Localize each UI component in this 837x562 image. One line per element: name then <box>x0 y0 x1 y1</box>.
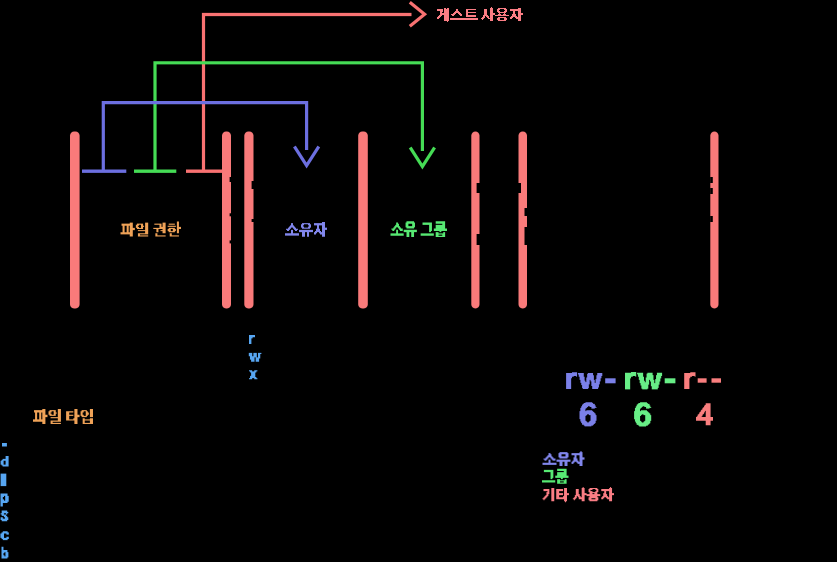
arrowhead red pointing right at guest user <box>410 2 425 26</box>
filetype char s <box>1 511 9 522</box>
wire green from group-permissions tick to owning group arrow <box>155 63 422 171</box>
tick blue under owner permissions rw- <box>82 169 126 172</box>
arrowhead blue pointing down at owner <box>294 147 318 166</box>
hyphen 1 after r others <box>698 378 707 382</box>
paren bar 1 left of permissions <box>70 132 80 309</box>
letter x execute <box>249 370 257 379</box>
label file type 파일 타입 <box>33 409 93 424</box>
black text notch on bar7 mid <box>710 188 713 194</box>
digit 6 group <box>634 402 651 426</box>
value r others <box>684 372 695 389</box>
filetype char d <box>1 456 9 466</box>
digit 4 others <box>696 403 713 425</box>
tick red under other permissions r-- <box>186 169 223 172</box>
paren bar 4 right of link count <box>358 132 368 309</box>
hyphen 2 after r others <box>712 378 722 382</box>
paren bar 5 left of owner name <box>471 132 479 309</box>
black text notch on bar6 mid right <box>525 208 528 216</box>
arrowhead green pointing down at owning group <box>410 148 434 167</box>
label guest user 게스트 사용자 <box>437 7 523 22</box>
letter w write <box>249 353 262 362</box>
black text notch on bar6 lower right <box>525 227 528 245</box>
black text notch on bar3 right lower <box>252 219 254 222</box>
filetype char l <box>1 474 7 487</box>
black text notch on bar5 lower <box>477 234 480 245</box>
tick green under group permissions rw- <box>134 169 176 172</box>
black text notch on bar7 lower <box>710 216 713 222</box>
paren bar 3 left of link count <box>244 132 253 309</box>
black text notch on bar2 right mid <box>230 213 232 216</box>
black text notch on bar3 right upper <box>252 181 254 189</box>
filetype char c <box>0 531 8 540</box>
label owning group 소유 그룹 <box>391 221 448 237</box>
wire blue from owner-permissions tick to owner arrow <box>103 103 306 171</box>
label owner small 소유자 <box>543 451 585 466</box>
wire red from other-permissions tick up to guest user <box>204 15 412 171</box>
paren bar 6 right of owner name <box>519 132 528 309</box>
black text notch on bar2 right upper <box>230 177 232 182</box>
label file permission 파일 권한 <box>121 222 181 237</box>
hyphen after rw owner <box>605 378 615 383</box>
filetype char dash <box>2 443 7 447</box>
filetype char p <box>1 494 9 507</box>
label owner 소유자 <box>285 222 327 237</box>
label group small 그룹 <box>542 469 568 484</box>
black text notch on bar6 upper left <box>519 183 522 193</box>
hyphen after rw group <box>665 378 676 383</box>
paren bar 7 right of group name <box>710 132 718 309</box>
digit 6 owner <box>580 402 597 426</box>
black text notch on bar5 upper <box>477 183 480 193</box>
black text notch on bar7 upper <box>710 177 713 183</box>
value rw group <box>625 372 662 389</box>
label other users 기타 사용자 <box>543 487 615 502</box>
filetype char b <box>2 547 9 559</box>
letter r read <box>249 335 255 344</box>
paren bar 2 right of permissions <box>222 132 231 309</box>
black text notch on bar2 right lower <box>230 240 232 243</box>
value rw owner <box>566 372 602 389</box>
